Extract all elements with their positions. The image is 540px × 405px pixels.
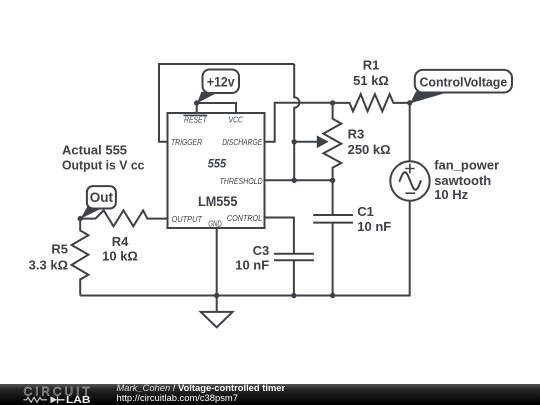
resistor R1 51k	[333, 58, 410, 112]
wire wiper node down to threshold wire	[293, 142, 295, 181]
node threshold/vertical	[292, 178, 297, 183]
node gnd rail / gnd pin	[214, 293, 219, 298]
svg-text:LAB: LAB	[66, 394, 91, 405]
svg-text:10 Hz: 10 Hz	[434, 187, 468, 202]
svg-text:555: 555	[208, 157, 227, 171]
svg-text:R4: R4	[112, 234, 129, 249]
svg-text:Output is V cc: Output is V cc	[62, 157, 145, 172]
wire source bottom to ground rail	[333, 201, 410, 296]
wire gnd pin to ground rail	[216, 228, 218, 296]
footer bar	[0, 384, 540, 405]
flag ControlVoltage	[410, 70, 512, 104]
svg-text:THRESHOLD: THRESHOLD	[220, 176, 263, 186]
svg-text:10 nF: 10 nF	[357, 219, 391, 234]
power flag +12v	[197, 70, 239, 104]
svg-text:DISCHARGE: DISCHARGE	[222, 137, 262, 147]
svg-text:R5: R5	[51, 242, 68, 257]
svg-text:LM555: LM555	[198, 194, 238, 209]
footer credit text	[117, 383, 286, 402]
svg-text:CONTROL: CONTROL	[227, 213, 263, 223]
capacitor C1 10nF	[313, 180, 391, 295]
svg-text:GND: GND	[208, 218, 222, 228]
node Out/R4/R5	[78, 216, 83, 221]
svg-text:fan_power: fan_power	[434, 157, 499, 172]
wire vertical from top wire with hop over discharge wire	[294, 64, 299, 142]
node gnd rail / C1	[330, 293, 335, 298]
svg-text:sawtooth: sawtooth	[434, 173, 491, 188]
wire trigger loop (TRIGGER to top-left corner to top wire)	[159, 64, 294, 142]
wire +12v to vcc stub	[197, 103, 236, 113]
svg-text:250 kΩ: 250 kΩ	[348, 142, 391, 157]
potentiometer R3 250k	[294, 103, 390, 180]
svg-text:3.3 kΩ: 3.3 kΩ	[29, 257, 68, 272]
node gnd rail / C3	[291, 293, 296, 298]
node R1 left / R3 top	[330, 100, 335, 105]
resistor R5 3.3k	[29, 219, 89, 296]
wire +12v to reset stub	[196, 103, 198, 113]
svg-text:TRIGGER: TRIGGER	[171, 137, 202, 147]
svg-text:51 kΩ: 51 kΩ	[353, 73, 389, 88]
capacitor C3 10nF	[235, 243, 314, 296]
CircuitLab logo	[0, 384, 110, 405]
svg-text:Out: Out	[90, 190, 114, 205]
flag Out	[80, 186, 116, 219]
svg-text:10 nF: 10 nF	[235, 258, 269, 273]
svg-text:+12v: +12v	[207, 74, 235, 90]
annotation text	[62, 143, 145, 173]
svg-text:C3: C3	[253, 243, 270, 258]
node at reset/vcc	[194, 100, 199, 105]
wire ground rail	[80, 295, 332, 297]
wire control voltage node down to source	[409, 103, 411, 161]
svg-text:R1: R1	[363, 58, 380, 73]
wire threshold	[265, 179, 333, 181]
node threshold/R3 bottom/C1	[330, 178, 335, 183]
wire control pin to C3	[265, 218, 294, 254]
node R1 right / ControlVoltage	[407, 100, 412, 105]
svg-text:R3: R3	[348, 126, 365, 141]
svg-text:10 kΩ: 10 kΩ	[102, 248, 138, 263]
svg-text:RESET: RESET	[184, 115, 207, 125]
IC U1 LM555	[168, 113, 265, 228]
source V1 fan_power sawtooth	[390, 157, 499, 202]
ground symbol	[201, 296, 233, 328]
svg-text:VCC: VCC	[229, 115, 244, 125]
svg-text:ControlVoltage: ControlVoltage	[420, 75, 508, 90]
resistor R4 10k	[80, 210, 167, 263]
svg-text:Actual 555: Actual 555	[62, 143, 127, 158]
wire discharge to R1/R3 node	[265, 103, 333, 142]
node wiper	[292, 139, 297, 144]
svg-text:OUTPUT: OUTPUT	[172, 214, 203, 224]
svg-text:C1: C1	[357, 204, 374, 219]
